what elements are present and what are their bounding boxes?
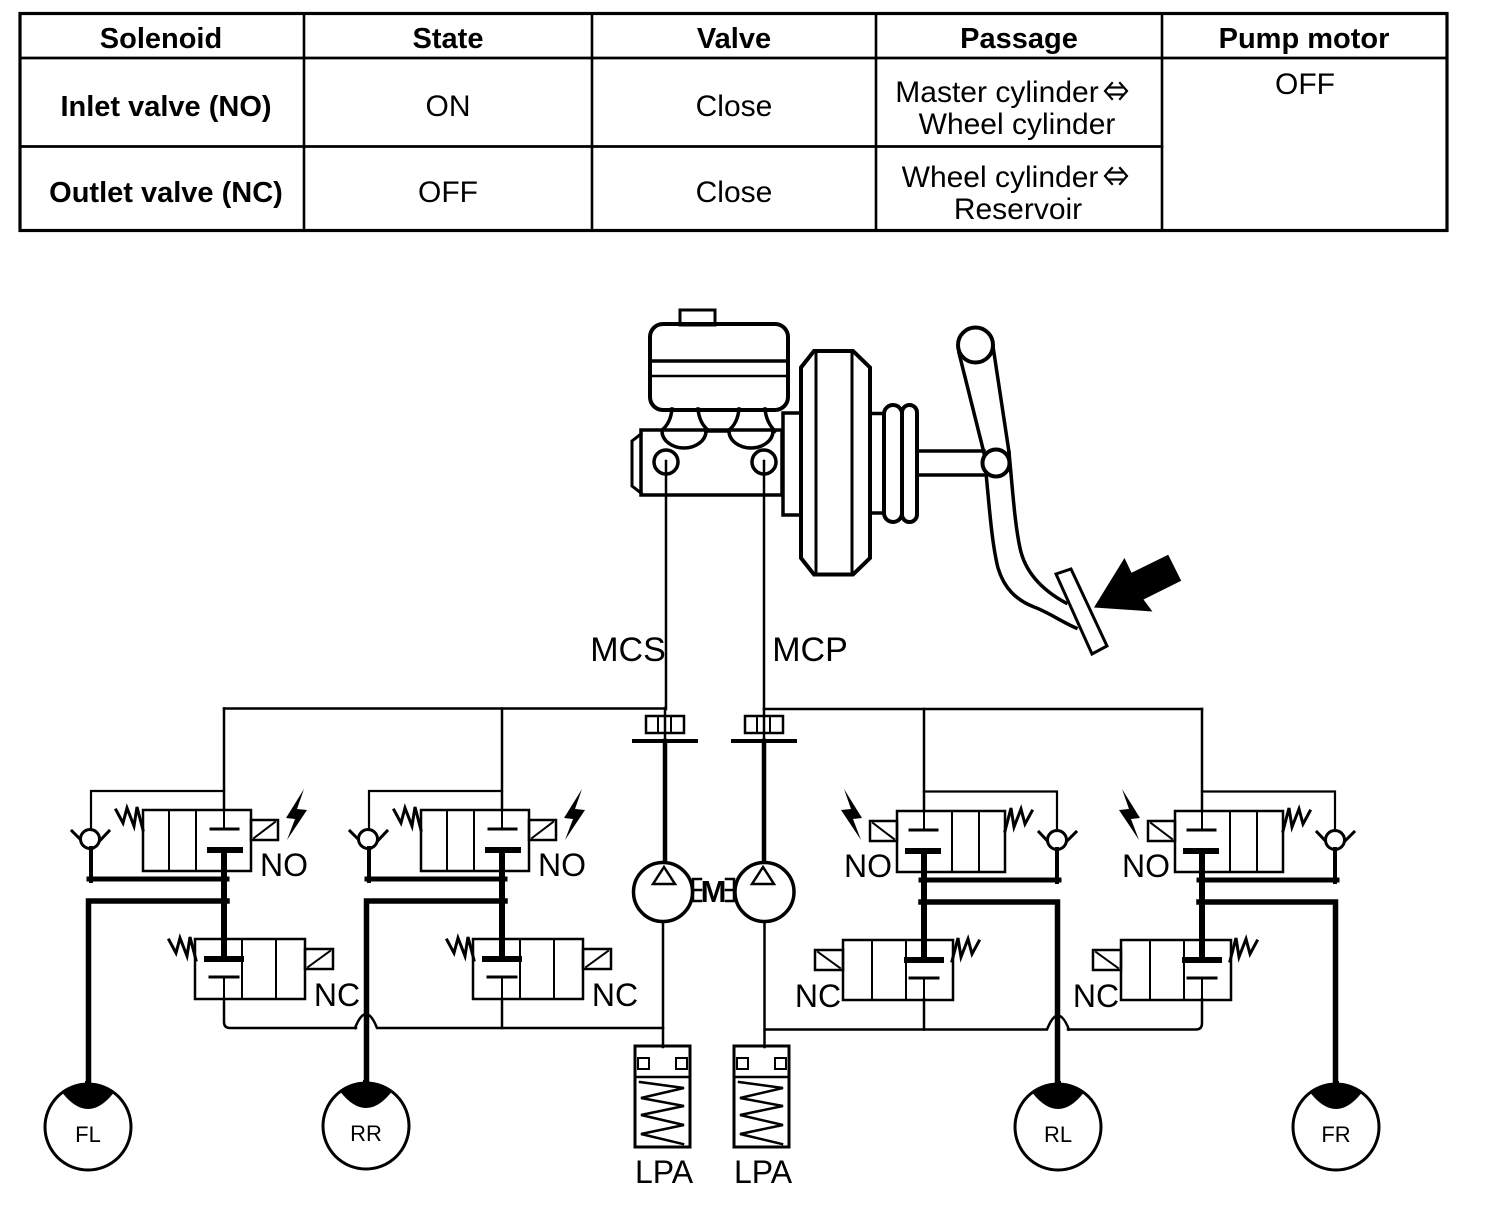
MCP line: [763, 461, 766, 709]
NO RL seat: [910, 829, 937, 832]
seal rings: [884, 405, 902, 522]
NC FL body: [195, 939, 305, 999]
NO RR spring: [394, 807, 421, 830]
NO RR body: [421, 810, 529, 871]
wheel RR: [323, 1083, 409, 1169]
supply drop FR: [1201, 709, 1204, 811]
NC FL spring: [169, 937, 196, 960]
solenoid bolt FL: [286, 789, 307, 840]
NC RR solenoid actuator: [583, 949, 611, 969]
damper MCP: [733, 709, 795, 864]
NO RR solenoid actuator: [529, 820, 556, 840]
left return line: [224, 999, 356, 1028]
left distribution line: [224, 707, 665, 710]
thick wire RR to wheel: [367, 901, 506, 1088]
svg-text:NO: NO: [844, 848, 892, 884]
check valve RL: [1039, 831, 1076, 883]
svg-text:NC: NC: [795, 978, 841, 1014]
inlet valve NO RL: [870, 808, 1032, 957]
bypass wire RL: [924, 792, 1057, 832]
reservoir cap: [680, 310, 715, 325]
inlet valve NO RR: [394, 807, 556, 956]
reservoir feet: [662, 409, 672, 430]
svg-text:LPA: LPA: [734, 1154, 793, 1190]
thick wire RL upper: [921, 878, 1059, 883]
svg-text:RR: RR: [350, 1121, 382, 1146]
NO FR solenoid actuator: [1148, 821, 1175, 841]
supply drop RR: [501, 709, 504, 811]
NO FR poppet: [1186, 848, 1216, 854]
push arrow: [1094, 555, 1181, 612]
accumulator LPA 1: [635, 1046, 690, 1147]
MCS line: [665, 461, 668, 709]
svg-text:Valve: Valve: [697, 23, 771, 55]
RL NC return drop: [923, 999, 926, 1030]
master cylinder body: [641, 430, 782, 495]
NO FL poppet: [210, 847, 240, 853]
NC FR body: [1121, 940, 1231, 1000]
svg-text:NO: NO: [260, 847, 308, 883]
svg-text:FR: FR: [1321, 1122, 1350, 1147]
NC FL solenoid actuator: [305, 949, 333, 969]
NC FR solenoid actuator: [1093, 950, 1121, 970]
NO RR poppet: [488, 847, 518, 853]
bypass wire RR: [369, 791, 502, 830]
inlet valve NO FR: [1148, 808, 1310, 957]
NC RR body: [473, 939, 583, 999]
svg-text:OFF: OFF: [418, 176, 478, 209]
NO FL seat: [211, 828, 238, 831]
supply drop FL: [223, 709, 226, 811]
NO FL spring: [116, 807, 143, 830]
solenoid bolt FR: [1119, 789, 1140, 840]
svg-text:LPA: LPA: [635, 1154, 694, 1190]
NO FR body: [1175, 811, 1283, 872]
NO RL body: [897, 811, 1005, 872]
outlet valve NC RR: [447, 937, 611, 999]
svg-text:Outlet valve (NC): Outlet valve (NC): [49, 177, 283, 209]
outlet valve NC FL: [169, 937, 333, 999]
svg-text:Wheel cylinder: Wheel cylinder: [919, 108, 1116, 141]
svg-text:Reservoir: Reservoir: [954, 193, 1082, 226]
booster neck: [870, 412, 884, 416]
svg-text:MCP: MCP: [772, 631, 848, 669]
svg-text:Inlet valve (NO): Inlet valve (NO): [60, 91, 271, 123]
NO RR seat: [489, 828, 516, 831]
solenoid bolt RL: [841, 789, 862, 840]
NO RL spring: [1005, 808, 1032, 831]
double arrow row1: [1105, 83, 1127, 184]
pedal pad: [1056, 569, 1107, 654]
svg-text:Close: Close: [696, 176, 773, 209]
wheel RL: [1015, 1084, 1101, 1170]
svg-text:FL: FL: [75, 1122, 101, 1147]
RR NC return drop: [501, 999, 504, 1028]
svg-text:Solenoid: Solenoid: [100, 23, 222, 55]
svg-text:NC: NC: [314, 977, 360, 1013]
svg-text:Close: Close: [696, 90, 773, 123]
check valve FL: [72, 830, 109, 882]
NO FL body: [143, 810, 251, 871]
svg-text:NO: NO: [538, 847, 586, 883]
port MCS: [654, 450, 678, 474]
damper MCS: [634, 708, 696, 864]
svg-text:Passage: Passage: [960, 23, 1078, 55]
right return line: [1068, 999, 1202, 1030]
svg-text:M: M: [701, 874, 727, 909]
brake pedal: [958, 328, 1181, 655]
right distribution line: [764, 708, 1202, 711]
thick wire FR upper: [1199, 878, 1337, 883]
check valve FR: [1317, 831, 1354, 883]
wheel FR: [1293, 1084, 1379, 1170]
bypass wire FR: [1202, 792, 1335, 832]
reservoir: [650, 324, 788, 410]
svg-text:MCS: MCS: [590, 631, 666, 669]
outlet valve NC RL: [815, 938, 979, 1000]
accumulator LPA 2: [734, 1046, 789, 1147]
svg-text:Master cylinder: Master cylinder: [895, 76, 1098, 109]
NO FL solenoid actuator: [251, 820, 278, 840]
pump 2: [735, 863, 794, 1048]
NC RL solenoid actuator: [815, 950, 843, 970]
inlet valve NO FL: [116, 807, 278, 956]
thick wire FL upper: [89, 877, 227, 882]
NC FR spring: [1230, 938, 1257, 961]
mounting plate: [783, 413, 801, 515]
NO RL poppet: [908, 848, 938, 854]
thick wire RR upper: [367, 877, 505, 882]
pump motor M: [693, 874, 734, 909]
svg-text:OFF: OFF: [1275, 68, 1335, 101]
thick wire RL to wheel: [921, 902, 1058, 1089]
outlet valve NC FR: [1093, 938, 1257, 1000]
NO RL solenoid actuator: [870, 821, 897, 841]
wheel FL: [45, 1084, 131, 1170]
supply drop RL: [923, 709, 926, 811]
svg-text:State: State: [413, 23, 484, 55]
svg-text:Wheel cylinder: Wheel cylinder: [902, 161, 1099, 194]
booster body: [801, 351, 870, 575]
thick wire FL to wheel: [89, 901, 228, 1089]
svg-text:NC: NC: [592, 977, 638, 1013]
svg-text:NO: NO: [1122, 848, 1170, 884]
pushrod: [917, 449, 984, 453]
scallop arcs on cylinder top: [662, 431, 706, 448]
NC RR spring: [447, 937, 474, 960]
bypass wire FL: [91, 791, 224, 830]
port MCP: [752, 450, 776, 474]
table: solenoid state chart: [20, 14, 1447, 231]
svg-text:ON: ON: [426, 90, 471, 123]
NO FR seat: [1188, 829, 1215, 832]
svg-text:NC: NC: [1073, 978, 1119, 1014]
solenoid bolt RR: [564, 789, 585, 840]
pump 1: [634, 863, 693, 1048]
NO FR spring: [1283, 808, 1310, 831]
check valve RR: [350, 830, 387, 882]
svg-text:Pump motor: Pump motor: [1219, 23, 1390, 55]
MASTER CYLINDER AND BOOSTER: [632, 310, 984, 575]
NC RL spring: [952, 938, 979, 961]
svg-text:RL: RL: [1044, 1122, 1072, 1147]
thick wire FR to wheel: [1199, 902, 1336, 1089]
NC RL body: [843, 940, 953, 1000]
